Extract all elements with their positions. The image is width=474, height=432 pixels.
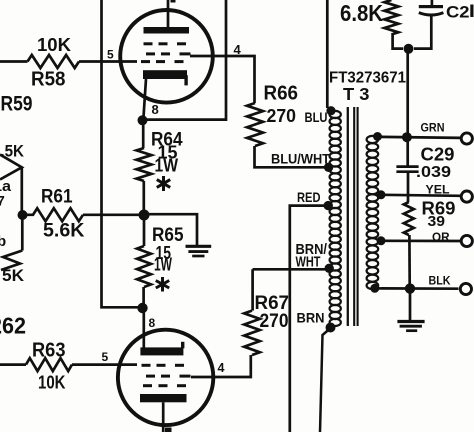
- svg-text:BLK: BLK: [429, 276, 452, 288]
- svg-text:270: 270: [260, 311, 289, 332]
- wire cathode node to R64: [142, 124, 145, 148]
- svg-text:C29: C29: [421, 144, 455, 165]
- svg-text:8: 8: [152, 102, 159, 117]
- transformer T3 secondary winding: [367, 136, 379, 143]
- node BLK tap: [370, 284, 379, 293]
- tube V2 grid row 3: [143, 384, 152, 387]
- resistor R61 5.6K: [23, 208, 84, 221]
- ground (cathode network): [186, 245, 212, 248]
- wire OR tap to terminal: [382, 239, 460, 242]
- node BRN tap: [326, 323, 336, 333]
- asterisk (R64): [157, 176, 170, 191]
- node feedback junction: [404, 44, 414, 54]
- resistor R69 39: [404, 202, 414, 235]
- svg-text:4: 4: [218, 361, 225, 375]
- tube V2 grid row 1 (control, pin 5): [142, 364, 151, 367]
- resistor R58 10K: [28, 55, 80, 68]
- wire R69 down across OR to BLK node: [408, 235, 411, 286]
- terminal YEL: [461, 191, 472, 202]
- svg-text:BLU/WHT: BLU/WHT: [271, 152, 331, 167]
- transformer T3 core: [347, 107, 349, 326]
- terminal GRN: [461, 133, 472, 144]
- wire 6.8K to junction: [393, 35, 403, 49]
- node junction R61 left: [18, 210, 28, 220]
- node A main junction: [139, 210, 150, 221]
- tube V1 grid row 3 (control, pin 5): [141, 60, 150, 63]
- node GRN tap: [373, 132, 382, 141]
- ground (secondary): [397, 320, 424, 323]
- svg-text:C2: C2: [446, 3, 470, 22]
- wire node to V2 pin 8: [142, 312, 145, 348]
- svg-text:R58: R58: [31, 69, 66, 91]
- wire node A to ground: [148, 214, 197, 245]
- capacitor C2x plate bottom (curved): [419, 13, 444, 15]
- svg-text:5: 5: [107, 48, 114, 62]
- svg-text:.039: .039: [416, 164, 451, 181]
- asterisk (R65): [156, 277, 169, 292]
- tube V2 grid row 2 (screen, pin 4): [146, 375, 155, 378]
- node YEL tap: [377, 190, 386, 199]
- svg-text:270: 270: [267, 106, 297, 126]
- node RED tap: [324, 201, 333, 210]
- tube V1 envelope: [120, 10, 213, 103]
- wire grid input to R58: [0, 60, 28, 63]
- svg-text:10K: 10K: [37, 35, 71, 55]
- transformer T3 primary winding: [330, 111, 341, 118]
- wire R67 to BRN/WHT tap: [253, 269, 326, 310]
- svg-text:1W: 1W: [154, 254, 172, 275]
- wire BLU tap to top edge: [326, 0, 329, 108]
- tube V1 cathode tick: [184, 75, 187, 85]
- resistor R65 15 1W: [137, 246, 151, 287]
- resistor edge fragment (left, partial zigzag): [0, 155, 22, 180]
- node OR tap: [377, 236, 386, 245]
- svg-text:8: 8: [149, 316, 156, 330]
- wire GRN tap to terminal: [381, 137, 460, 138]
- wire junction down to GRN node: [406, 53, 409, 137]
- tube V1 grid row 2 (screen, pin 4): [146, 52, 155, 55]
- resistor R67 270: [244, 311, 260, 355]
- wire C2x to junction: [414, 16, 431, 49]
- resistor 6.8K (partial at top): [384, 0, 398, 35]
- svg-text:GRN: GRN: [421, 123, 445, 135]
- svg-text:BLU: BLU: [305, 109, 328, 125]
- svg-text:BRN: BRN: [297, 310, 325, 326]
- tube V2 cathode bar: [140, 347, 183, 355]
- node GRN junction: [402, 132, 412, 142]
- capacitor C2x plate top: [419, 5, 443, 8]
- wire edge resistor to junction: [20, 167, 23, 212]
- wire BRN tap to bottom edge: [320, 329, 330, 432]
- wire R63 to tube V2 pin 5: [72, 363, 137, 366]
- wire BLK tap to terminal: [379, 287, 459, 290]
- wire GRN node to C29: [406, 140, 409, 166]
- svg-text:R61: R61: [41, 187, 73, 208]
- svg-text:39: 39: [428, 214, 446, 230]
- tube V2 cathode tick: [181, 342, 184, 349]
- tube V1 plate bar: [144, 27, 190, 34]
- node V2 cathode junction: [137, 303, 147, 313]
- svg-text:R63: R63: [32, 340, 66, 362]
- wire V1 cathode lead: [144, 79, 147, 117]
- wire input to R63: [0, 363, 26, 366]
- wire top-edge line to cathode node: [147, 0, 226, 120]
- svg-text:10K: 10K: [38, 373, 66, 393]
- svg-text:R59: R59: [1, 93, 33, 116]
- tube V1 cathode bar: [143, 70, 187, 79]
- wire vertical bus from top edge down-left: [102, 0, 139, 307]
- wire RED tap to bottom edge: [290, 206, 324, 432]
- wire R61 to node A: [83, 213, 140, 216]
- wire YEL tap to terminal: [382, 195, 460, 196]
- svg-text:7: 7: [0, 193, 5, 209]
- wire C29 to R69: [407, 172, 410, 202]
- wire R58 to tube V1 pin 5: [79, 60, 137, 63]
- wire V1 screen pin4 to R66: [190, 56, 255, 103]
- svg-text:262: 262: [0, 313, 26, 339]
- tube V2 plate lead to bottom edge: [162, 402, 165, 432]
- wire R65 to V2 cathode node: [142, 287, 145, 304]
- resistor R66 270: [247, 103, 263, 146]
- wire node A to R65: [143, 220, 146, 246]
- label fragment top right: [470, 5, 473, 18]
- svg-text:6.8K: 6.8K: [340, 0, 383, 26]
- wire junction down: [21, 215, 24, 251]
- wire R64 to node A: [142, 181, 145, 210]
- tube V2 plate bar: [140, 394, 187, 402]
- resistor R64 15 1W: [137, 148, 152, 181]
- svg-text:5: 5: [102, 350, 109, 364]
- wire V2 screen pin4 to R67: [191, 355, 251, 377]
- wire R66 to BLU/WHT tap: [255, 146, 327, 167]
- svg-text:b: b: [0, 233, 6, 250]
- resistor edge fragment lower (partial zigzag): [1, 251, 22, 271]
- label fragment above plate: [171, 0, 176, 3]
- node V1 cathode junction: [138, 115, 148, 125]
- tube V2 envelope: [118, 330, 213, 425]
- svg-text:5K: 5K: [2, 266, 25, 285]
- node BRN/WHT tap: [325, 264, 334, 273]
- terminal OR: [461, 235, 472, 246]
- wire BLK node to ground: [409, 292, 412, 321]
- capacitor C2x lead: [431, 0, 434, 5]
- capacitor C29: [396, 165, 418, 168]
- svg-text:R66: R66: [264, 83, 299, 105]
- resistor R63 10K: [26, 358, 72, 371]
- tube V1 plate lead to top edge: [167, 0, 170, 28]
- label fragment at bottom: [165, 428, 172, 432]
- svg-text:5.6K: 5.6K: [43, 221, 85, 242]
- tube V1 grid row 1: [144, 42, 153, 45]
- node BLU tap: [326, 106, 335, 115]
- node BLK junction: [405, 283, 415, 293]
- svg-text:1W: 1W: [155, 155, 179, 176]
- node BLU/WHT tap: [324, 163, 333, 172]
- terminal BLK: [460, 283, 471, 294]
- svg-text:T 3: T 3: [343, 84, 370, 104]
- svg-text:WHT: WHT: [296, 254, 321, 271]
- svg-text:RED: RED: [297, 189, 321, 205]
